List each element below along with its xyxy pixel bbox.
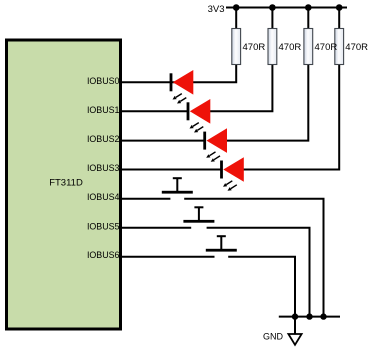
svg-text:IOBUS5: IOBUS5 [87,221,120,231]
svg-text:IOBUS3: IOBUS3 [87,163,120,173]
svg-text:IOBUS0: IOBUS0 [87,76,120,86]
svg-text:IOBUS1: IOBUS1 [87,105,120,115]
svg-text:470R: 470R [279,42,302,53]
svg-text:IOBUS2: IOBUS2 [87,134,120,144]
svg-text:3V3: 3V3 [208,4,225,15]
svg-text:IOBUS4: IOBUS4 [87,192,120,202]
svg-text:IOBUS6: IOBUS6 [87,250,120,260]
svg-text:470R: 470R [345,42,368,53]
svg-text:470R: 470R [243,42,266,53]
svg-text:GND: GND [263,332,284,342]
svg-text:FT311D: FT311D [49,178,83,189]
svg-text:470R: 470R [315,42,338,53]
